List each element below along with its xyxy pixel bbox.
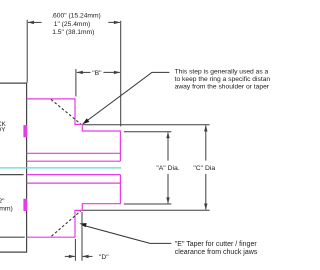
svg-text:BODY: BODY xyxy=(0,127,5,134)
D dimension arrows (outside) xyxy=(65,255,93,258)
ring bore line lower xyxy=(27,174,121,176)
svg-text:1" (25.4mm): 1" (25.4mm) xyxy=(54,21,91,28)
C dia dimension line with arrows xyxy=(204,125,207,210)
svg-text:This step is generally used as: This step is generally used as a means xyxy=(175,68,270,75)
chuck body outline xyxy=(0,83,27,252)
svg-text:away from the shoulder or tape: away from the shoulder or taper xyxy=(175,84,270,91)
C dia extension line bottom xyxy=(83,209,210,211)
B dimension line with arrows xyxy=(76,71,120,74)
chuck body inner line upper xyxy=(0,174,24,176)
stud pin lower xyxy=(23,199,27,211)
D dimension extension line left xyxy=(74,239,76,261)
stud pin upper xyxy=(23,125,27,137)
svg-text:(30.48mm): (30.48mm) xyxy=(0,205,13,212)
svg-text:"C" Dia: "C" Dia xyxy=(193,165,215,172)
taper hidden line upper (dashed) xyxy=(51,99,81,124)
D dimension extension line right xyxy=(81,212,83,261)
thickness dimension extension line left xyxy=(26,20,28,83)
thickness dimension line left segment with arrow xyxy=(28,21,42,24)
ring bore line upper xyxy=(27,160,121,162)
step note leader with arrow xyxy=(83,72,169,123)
thickness dimension extension line right xyxy=(120,21,122,127)
svg-text:"B": "B" xyxy=(92,70,102,77)
taper hidden line lower (dashed) xyxy=(52,211,81,236)
svg-text:to keep the ring a specific di: to keep the ring a specific distance xyxy=(175,76,270,83)
centerline (cyan) xyxy=(0,167,121,169)
backplate ring outline (magenta) xyxy=(27,99,121,237)
svg-text:1.2": 1.2" xyxy=(0,198,5,205)
ring recess line lower xyxy=(27,182,121,184)
svg-text:1.5" (38.1mm): 1.5" (38.1mm) xyxy=(52,29,94,36)
svg-text:"A" Dia.: "A" Dia. xyxy=(156,165,179,172)
thickness dimension line right segment with arrow xyxy=(108,21,120,24)
A dia dimension line with arrows xyxy=(166,132,169,204)
chuck body inner line lower xyxy=(0,236,25,238)
svg-text:"E" Taper for cutter / finger: "E" Taper for cutter / finger xyxy=(175,241,258,248)
svg-text:"D": "D" xyxy=(99,254,109,261)
E taper leader with arrow xyxy=(82,225,172,244)
svg-text:.600" (15.24mm): .600" (15.24mm) xyxy=(51,12,101,19)
B dimension extension line left xyxy=(75,69,77,96)
A dia extension line top xyxy=(124,131,172,133)
ring recess line upper xyxy=(27,152,121,154)
A dia extension line bottom xyxy=(124,203,172,205)
svg-text:clearance from chuck jaws: clearance from chuck jaws xyxy=(175,249,258,256)
C dia extension line top xyxy=(83,124,210,126)
